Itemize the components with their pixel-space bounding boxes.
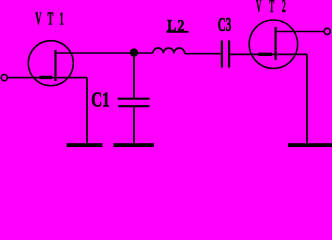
- svg-text:VT2: VT2: [256, 0, 294, 16]
- wire gate/source run VT1: [8, 77, 87, 79]
- node A junction dot: [130, 48, 138, 56]
- transistor VT1 envelope: [28, 41, 73, 86]
- label L2 underline: [167, 31, 189, 33]
- wire VT2 source drop: [306, 54, 308, 144]
- label VT2: [256, 0, 294, 16]
- wire node to L2: [134, 52, 153, 54]
- ground bus 2: [114, 143, 155, 147]
- wire VT1 drain to node: [56, 52, 135, 54]
- input terminal: [1, 75, 7, 81]
- wire C1 to ground: [133, 107, 135, 145]
- capacitor C3: [222, 41, 229, 68]
- svg-text:C3: C3: [218, 15, 232, 36]
- inductor L2: [153, 48, 185, 53]
- label VT1: [35, 9, 70, 28]
- capacitor C1: [118, 99, 150, 107]
- transistor VT1 channel bar: [54, 50, 56, 81]
- transistor VT2 envelope: [249, 20, 297, 68]
- wire node to C1: [133, 53, 135, 98]
- wire VT1 source drop: [86, 78, 88, 144]
- transistor VT2 channel bar: [275, 27, 277, 60]
- label C3: [218, 15, 232, 36]
- wire L2 to C3: [185, 53, 221, 55]
- output terminal: [324, 28, 330, 34]
- svg-text:C1: C1: [91, 88, 109, 111]
- transistor VT2 gate arrow: [258, 53, 272, 56]
- wire C3 to VT2 source run: [230, 53, 307, 55]
- svg-text:VT1: VT1: [35, 9, 70, 28]
- label L2: [167, 17, 186, 35]
- transistor VT1 gate arrow: [40, 76, 53, 79]
- label C1: [91, 88, 109, 111]
- ground bus 3: [288, 143, 332, 147]
- ground bus 1: [67, 143, 103, 147]
- wire VT2 drain to output: [276, 31, 324, 33]
